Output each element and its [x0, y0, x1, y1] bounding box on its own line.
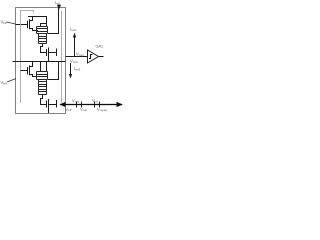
stack M_S1	[37, 27, 48, 44]
svg-text:GA1: GA1	[96, 45, 104, 49]
axis tick 3	[94, 102, 96, 108]
svg-text:VbP: VbP	[1, 20, 7, 26]
transistor M2	[47, 48, 57, 62]
wire drop rail to M1 drain	[32, 16, 34, 20]
svg-text:Iref1: Iref1	[70, 27, 77, 33]
wire Iref vertical	[58, 5, 60, 34]
Iref arrow down	[57, 5, 61, 10]
axis left arrowhead	[60, 102, 66, 107]
stack M_S2	[37, 72, 48, 95]
axis tick 2	[81, 102, 83, 108]
transistor M3	[28, 62, 39, 77]
wire Vcap node to comparator	[66, 56, 88, 58]
inner boundary top edge	[21, 11, 34, 13]
wire jog to stack1 top-left	[41, 24, 47, 27]
svg-text:Vcap: Vcap	[80, 107, 88, 113]
axis tick 1	[76, 102, 78, 108]
svg-text:Vref: Vref	[92, 98, 98, 104]
op-amp U1 comparator	[88, 50, 99, 63]
wire drop rail to stack2 top	[46, 62, 48, 72]
wire Iref branch to stack M_S1	[48, 33, 59, 35]
hysteresis mark inside U1	[89, 55, 93, 59]
svg-text:Vmid: Vmid	[72, 98, 80, 104]
wire gate bias M3	[21, 70, 28, 72]
inner boundary left edge	[20, 11, 22, 104]
axis right arrowhead	[117, 102, 123, 107]
wire drop rail to stack1 top	[46, 16, 48, 27]
wire stack1 bottom step to M2 gate	[41, 44, 47, 53]
current arrow up Iref1	[74, 37, 76, 57]
svg-text:Iref2: Iref2	[74, 66, 81, 72]
axis tick 4	[99, 102, 101, 108]
wire leader from label	[7, 22, 16, 24]
svg-text:VinP: VinP	[65, 107, 72, 113]
svg-text:Vmid: Vmid	[70, 58, 78, 64]
wire top rail block1	[28, 16, 47, 18]
inner boundary right edge	[61, 11, 63, 104]
svg-text:Vcap: Vcap	[76, 52, 84, 58]
svg-text:VbN: VbN	[1, 80, 8, 86]
transistor M1	[28, 19, 39, 30]
transistor M4	[47, 99, 57, 113]
svg-text:Iref: Iref	[55, 0, 60, 6]
axis line	[60, 104, 122, 106]
wire U1 output	[99, 56, 104, 58]
wire drop rail to stack2 top-left	[40, 62, 42, 72]
outer box	[16, 8, 66, 114]
current arrow down Iref2	[70, 63, 72, 75]
wire mid rail	[13, 61, 66, 63]
wire branch rail to stack2 right	[48, 62, 59, 80]
wire leader from VbN label	[7, 79, 16, 83]
svg-text:Vsig,ap: Vsig,ap	[97, 107, 108, 113]
wire stack2 bottom step to M4 gate	[41, 95, 47, 105]
wire gate bias M1	[16, 24, 28, 26]
